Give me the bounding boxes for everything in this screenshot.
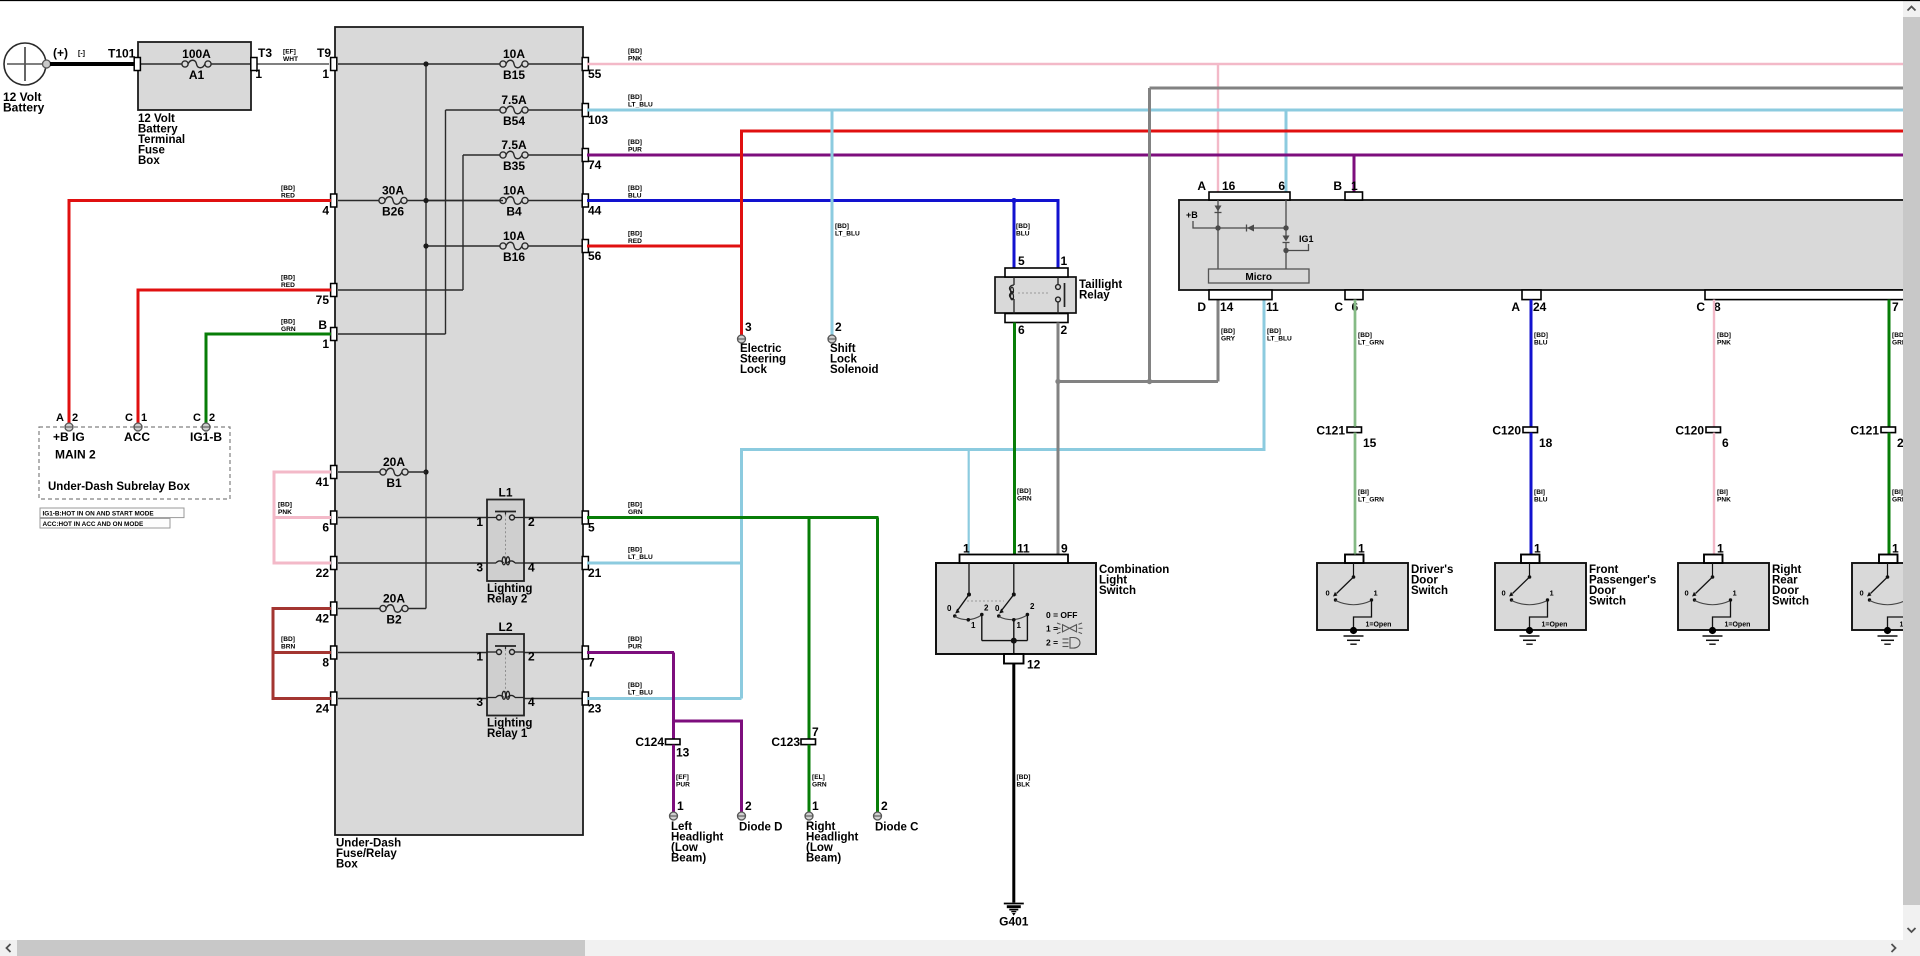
svg-text:0: 0 bbox=[995, 604, 1000, 613]
svg-text:16: 16 bbox=[1222, 179, 1236, 193]
wire LT_BLU drop to A6 bbox=[1285, 110, 1288, 192]
svg-text:20A: 20A bbox=[383, 592, 405, 606]
svg-text:C121: C121 bbox=[1850, 424, 1879, 438]
svg-text:1: 1 bbox=[476, 515, 483, 529]
svg-text:C123: C123 bbox=[771, 735, 800, 749]
svg-text:BLU: BLU bbox=[628, 192, 642, 199]
svg-text:55: 55 bbox=[588, 67, 602, 81]
svg-text:BLU: BLU bbox=[1534, 496, 1548, 503]
svg-text:56: 56 bbox=[588, 249, 602, 263]
svg-text:6: 6 bbox=[322, 521, 329, 535]
svg-text:[EF]: [EF] bbox=[283, 49, 296, 56]
wire [BD] LT_BLU to shift lock bbox=[831, 110, 834, 335]
internal bus wires bbox=[425, 64, 427, 609]
svg-text:2: 2 bbox=[984, 604, 989, 613]
svg-text:1: 1 bbox=[1374, 589, 1378, 598]
svg-text:T3: T3 bbox=[258, 46, 272, 60]
svg-text:11: 11 bbox=[1266, 300, 1279, 314]
svg-text:RED: RED bbox=[628, 238, 642, 245]
wire [BD] GRN pin5 to diode C bbox=[587, 516, 879, 519]
Under-Dash Subrelay Box bbox=[39, 427, 230, 499]
svg-text:[BD]: [BD] bbox=[1717, 332, 1731, 339]
svg-text:[BD]: [BD] bbox=[1221, 328, 1235, 335]
svg-text:[BD]: [BD] bbox=[281, 185, 295, 192]
svg-text:4: 4 bbox=[528, 695, 535, 709]
svg-text:LT_BLU: LT_BLU bbox=[628, 101, 653, 108]
comb switch pin 12 bbox=[1004, 654, 1024, 664]
svg-text:6: 6 bbox=[1018, 323, 1025, 337]
svg-text:23: 23 bbox=[588, 702, 602, 716]
svg-text:C: C bbox=[125, 412, 133, 424]
svg-text:C121: C121 bbox=[1316, 424, 1345, 438]
svg-text:20A: 20A bbox=[383, 455, 405, 469]
wire [BD] LT_BLU D11 down/left bbox=[1263, 300, 1266, 450]
wire [BD] BLU from module bbox=[1530, 300, 1533, 427]
relay L1 bbox=[487, 500, 524, 582]
svg-text:24: 24 bbox=[1533, 300, 1547, 314]
svg-text:103: 103 bbox=[588, 113, 608, 127]
svg-text:7.5A: 7.5A bbox=[501, 93, 527, 107]
svg-text:4: 4 bbox=[528, 561, 535, 575]
svg-text:1: 1 bbox=[322, 337, 329, 351]
svg-text:[BD]: [BD] bbox=[628, 94, 642, 101]
svg-text:2: 2 bbox=[72, 412, 78, 424]
svg-text:+B: +B bbox=[1186, 210, 1198, 220]
svg-text:Switch: Switch bbox=[1772, 596, 1809, 608]
svg-text:0: 0 bbox=[1860, 589, 1864, 598]
svg-text:[BD]: [BD] bbox=[628, 231, 642, 238]
svg-text:1: 1 bbox=[812, 799, 819, 813]
svg-text:1 =: 1 = bbox=[1046, 624, 1058, 634]
svg-text:PUR: PUR bbox=[676, 781, 690, 788]
svg-text:3: 3 bbox=[745, 320, 752, 334]
svg-text:[BD]: [BD] bbox=[628, 682, 642, 689]
svg-text:RED: RED bbox=[281, 282, 295, 289]
svg-text:[BD]: [BD] bbox=[628, 636, 642, 643]
wire BLU risers to taillight relay bbox=[1013, 201, 1016, 269]
svg-text:[BI]: [BI] bbox=[1534, 489, 1545, 496]
svg-text:Relay: Relay bbox=[1079, 290, 1110, 302]
svg-text:2: 2 bbox=[209, 412, 215, 424]
svg-text:PUR: PUR bbox=[628, 643, 642, 650]
svg-text:Diode D: Diode D bbox=[739, 822, 782, 834]
icon headlight bbox=[1070, 638, 1080, 649]
svg-text:B54: B54 bbox=[503, 114, 525, 128]
svg-text:6: 6 bbox=[1722, 436, 1729, 450]
svg-text:B: B bbox=[318, 318, 327, 332]
connector C123 bbox=[801, 739, 816, 745]
svg-text:IG1-B: IG1-B bbox=[190, 430, 222, 444]
fuse 20A B2 bbox=[338, 608, 383, 610]
svg-text:1: 1 bbox=[1351, 179, 1358, 193]
Combination Light Switch bbox=[936, 563, 1096, 654]
svg-text:[BI]: [BI] bbox=[1717, 489, 1728, 496]
wire LT_BLU riser to pins 21/23 bbox=[740, 448, 743, 699]
svg-text:A: A bbox=[1511, 300, 1520, 314]
terminal +B IG bbox=[65, 423, 73, 431]
svg-text:Relay 1: Relay 1 bbox=[487, 728, 528, 740]
svg-text:GRN: GRN bbox=[812, 781, 827, 788]
svg-text:[BD]: [BD] bbox=[1358, 332, 1372, 339]
svg-text:B35: B35 bbox=[503, 159, 525, 173]
connector C121 bbox=[1347, 427, 1362, 433]
svg-text:Battery: Battery bbox=[3, 101, 45, 115]
svg-text:42: 42 bbox=[316, 612, 330, 626]
svg-text:0: 0 bbox=[1685, 589, 1689, 598]
svg-text:0: 0 bbox=[1326, 589, 1330, 598]
svg-text:12: 12 bbox=[1027, 658, 1041, 672]
fuse 100A A1 bbox=[139, 63, 182, 65]
svg-text:[BD]: [BD] bbox=[278, 502, 292, 509]
svg-text:10A: 10A bbox=[503, 229, 525, 243]
svg-text:41: 41 bbox=[316, 475, 330, 489]
svg-text:3: 3 bbox=[476, 695, 483, 709]
svg-text:C: C bbox=[1696, 300, 1705, 314]
door switch left rear bbox=[1852, 563, 1920, 630]
svg-text:[BD]: [BD] bbox=[1534, 332, 1548, 339]
svg-text:Beam): Beam) bbox=[671, 853, 706, 865]
svg-text:1: 1 bbox=[1733, 589, 1737, 598]
svg-text:PNK: PNK bbox=[278, 509, 292, 516]
svg-text:+B IG: +B IG bbox=[53, 430, 85, 444]
svg-text:2: 2 bbox=[745, 799, 752, 813]
svg-text:3: 3 bbox=[476, 561, 483, 575]
svg-text:100A: 100A bbox=[182, 47, 211, 61]
svg-text:10A: 10A bbox=[503, 47, 525, 61]
svg-text:GRN: GRN bbox=[1017, 495, 1032, 502]
connector C bottom (6) bbox=[1345, 290, 1363, 300]
wire GRY relay2/D14/feed bbox=[1057, 323, 1060, 555]
svg-text:Box: Box bbox=[336, 859, 358, 871]
svg-text:(+): (+) bbox=[53, 46, 68, 60]
svg-text:PNK: PNK bbox=[1717, 339, 1731, 346]
wire [BD] RED pin4 to +B IG bbox=[69, 201, 331, 424]
wire PUR drop to B1 bbox=[1353, 155, 1356, 192]
svg-text:A: A bbox=[56, 412, 64, 424]
svg-text:1: 1 bbox=[963, 542, 970, 556]
svg-text:PNK: PNK bbox=[1717, 496, 1731, 503]
wire [BD] LT_GRN from module bbox=[1354, 300, 1357, 427]
wire [EL] GRN bbox=[808, 745, 811, 812]
comb switch contacts B bbox=[1013, 563, 1015, 595]
fuse 10A B4 bbox=[426, 200, 503, 202]
svg-text:Lock: Lock bbox=[740, 364, 767, 376]
ground G401 bbox=[1004, 903, 1024, 905]
svg-text:1: 1 bbox=[1534, 542, 1541, 556]
wire [BD] RED pin75 to ACC bbox=[138, 290, 331, 423]
svg-text:0 = OFF: 0 = OFF bbox=[1046, 610, 1077, 620]
svg-text:Switch: Switch bbox=[1411, 585, 1448, 597]
svg-text:G401: G401 bbox=[999, 915, 1029, 929]
svg-text:BLU: BLU bbox=[1534, 339, 1548, 346]
svg-text:7: 7 bbox=[1892, 300, 1899, 314]
svg-text:L1: L1 bbox=[498, 486, 512, 500]
door switch Front bbox=[1495, 563, 1586, 630]
svg-text:A: A bbox=[1197, 179, 1206, 193]
svg-text:WHT: WHT bbox=[283, 56, 298, 63]
svg-text:B1: B1 bbox=[386, 476, 402, 490]
svg-text:0: 0 bbox=[1502, 589, 1506, 598]
svg-text:[BD]: [BD] bbox=[1016, 223, 1030, 230]
12 Volt Battery Terminal Fuse Box bbox=[138, 42, 251, 110]
connector D bottom bbox=[1209, 290, 1272, 300]
svg-text:7.5A: 7.5A bbox=[501, 138, 527, 152]
svg-text:30A: 30A bbox=[382, 184, 404, 198]
svg-text:C: C bbox=[193, 412, 201, 424]
wire [BD] BLK to G401 bbox=[1012, 664, 1015, 903]
svg-text:1: 1 bbox=[1061, 254, 1068, 268]
svg-text:11: 11 bbox=[1017, 542, 1030, 556]
svg-text:2: 2 bbox=[528, 515, 535, 529]
svg-text:B: B bbox=[1333, 179, 1342, 193]
svg-text:74: 74 bbox=[588, 158, 602, 172]
svg-text:1: 1 bbox=[677, 799, 684, 813]
relay L2 bbox=[487, 634, 524, 716]
door switch Driver's bbox=[1317, 563, 1408, 630]
svg-text:18: 18 bbox=[1539, 436, 1553, 450]
connector A top bbox=[1209, 192, 1290, 200]
svg-text:B15: B15 bbox=[503, 68, 525, 82]
svg-text:0: 0 bbox=[947, 604, 952, 613]
svg-text:LT_GRN: LT_GRN bbox=[1358, 496, 1384, 503]
svg-text:[BD]: [BD] bbox=[281, 319, 295, 326]
wire [BD] RED pin56 bbox=[587, 245, 743, 248]
wire battery to T101 bbox=[50, 62, 134, 66]
svg-text:1: 1 bbox=[1358, 542, 1365, 556]
svg-text:7: 7 bbox=[812, 725, 819, 739]
micro block bbox=[1209, 269, 1310, 283]
svg-text:[BD]: [BD] bbox=[628, 185, 642, 192]
connector C124 bbox=[666, 739, 681, 745]
svg-text:[EL]: [EL] bbox=[812, 774, 825, 781]
svg-text:[BD]: [BD] bbox=[1017, 774, 1031, 781]
wire [BD] LT_BLU pin103 across bbox=[587, 109, 1903, 112]
fuse 30A B26 bbox=[338, 200, 382, 202]
wire [BD] PNK pins 41/6/22 bbox=[274, 472, 331, 563]
svg-text:IG1-B:HOT IN ON AND START MODE: IG1-B:HOT IN ON AND START MODE bbox=[43, 510, 155, 517]
svg-text:1=Open: 1=Open bbox=[1725, 622, 1751, 629]
svg-text:A1: A1 bbox=[189, 68, 205, 82]
svg-text:LT_GRN: LT_GRN bbox=[1358, 339, 1384, 346]
svg-text:LT_BLU: LT_BLU bbox=[628, 554, 653, 561]
svg-text:B26: B26 bbox=[382, 205, 404, 219]
svg-text:[BD]: [BD] bbox=[835, 223, 849, 230]
svg-text:1: 1 bbox=[1892, 542, 1899, 556]
svg-text:Switch: Switch bbox=[1589, 596, 1626, 608]
svg-text:2 =: 2 = bbox=[1046, 638, 1058, 648]
fuse 7.5A B54 bbox=[446, 109, 504, 111]
wire T3 to T9 [EF] WHT bbox=[257, 63, 329, 65]
fuse 20A B1 bbox=[338, 471, 383, 473]
wire [BI] PNK bbox=[1713, 433, 1715, 555]
vertical scrollbar bbox=[1903, 0, 1920, 940]
svg-text:21: 21 bbox=[588, 566, 602, 580]
svg-text:L2: L2 bbox=[498, 620, 512, 634]
svg-text:BLU: BLU bbox=[1016, 230, 1030, 237]
svg-text:LT_BLU: LT_BLU bbox=[835, 230, 860, 237]
svg-text:C124: C124 bbox=[635, 735, 664, 749]
svg-text:2: 2 bbox=[1061, 323, 1068, 337]
wire [BD] PUR pin7 to C124 bbox=[587, 651, 674, 654]
svg-text:T101: T101 bbox=[108, 47, 136, 61]
svg-text:[BD]: [BD] bbox=[628, 48, 642, 55]
svg-text:75: 75 bbox=[316, 293, 330, 307]
lt_grn core line bbox=[1354, 300, 1356, 427]
svg-text:22: 22 bbox=[316, 566, 330, 580]
horizontal scrollbar bbox=[0, 940, 1903, 956]
svg-text:10A: 10A bbox=[503, 184, 525, 198]
svg-text:C: C bbox=[1334, 300, 1343, 314]
svg-text:1=Open: 1=Open bbox=[1366, 622, 1392, 629]
comb switch coupler bbox=[967, 600, 1004, 602]
svg-text:13: 13 bbox=[676, 746, 690, 760]
svg-text:[BI]: [BI] bbox=[1892, 489, 1903, 496]
svg-text:Box: Box bbox=[138, 155, 160, 167]
svg-text:D: D bbox=[1197, 300, 1206, 314]
comb switch contacts A bbox=[968, 563, 970, 595]
top border line bbox=[0, 0, 1920, 2]
fuse 10A B15 bbox=[338, 63, 503, 65]
svg-text:1: 1 bbox=[255, 67, 262, 81]
svg-text:8: 8 bbox=[322, 656, 329, 670]
svg-text:14: 14 bbox=[1220, 300, 1234, 314]
svg-text:C120: C120 bbox=[1492, 424, 1521, 438]
svg-text:2: 2 bbox=[881, 799, 888, 813]
svg-text:1: 1 bbox=[141, 412, 147, 424]
svg-text:1: 1 bbox=[971, 621, 976, 630]
svg-text:RED: RED bbox=[281, 192, 295, 199]
comb switch output wires bbox=[981, 615, 983, 641]
svg-text:[BD]: [BD] bbox=[281, 636, 295, 643]
taillight relay bbox=[995, 277, 1076, 313]
svg-text:Diode C: Diode C bbox=[875, 822, 918, 834]
svg-text:PNK: PNK bbox=[628, 55, 642, 62]
fuse 7.5A B35 bbox=[463, 154, 503, 156]
svg-text:5: 5 bbox=[588, 521, 595, 535]
svg-text:Switch: Switch bbox=[1099, 585, 1136, 597]
svg-text:[BI]: [BI] bbox=[1358, 489, 1369, 496]
svg-text:MAIN 2: MAIN 2 bbox=[55, 448, 96, 462]
svg-text:LT_BLU: LT_BLU bbox=[1267, 335, 1292, 342]
connector B top bbox=[1345, 192, 1363, 200]
svg-text:[BD]: [BD] bbox=[628, 139, 642, 146]
svg-text:1: 1 bbox=[1550, 589, 1554, 598]
fuse 10A B16 bbox=[426, 245, 503, 247]
svg-text:IG1: IG1 bbox=[1299, 234, 1314, 244]
svg-text:BLK: BLK bbox=[1017, 781, 1031, 788]
svg-text:Under-Dash Subrelay Box: Under-Dash Subrelay Box bbox=[48, 481, 190, 493]
wire [BD] BRN pins 42/8/24 bbox=[273, 609, 331, 699]
svg-text:Beam): Beam) bbox=[806, 853, 841, 865]
svg-text:[BD]: [BD] bbox=[1267, 328, 1281, 335]
wire [BD] GRN from module bbox=[1888, 300, 1891, 427]
svg-text:GRY: GRY bbox=[1221, 335, 1236, 342]
svg-text:2: 2 bbox=[835, 320, 842, 334]
wire [BD] PNK pin55 across top bbox=[587, 63, 1903, 65]
svg-text:1: 1 bbox=[322, 67, 329, 81]
svg-text:6: 6 bbox=[1278, 179, 1285, 193]
svg-text:[BD]: [BD] bbox=[628, 547, 642, 554]
svg-text:Solenoid: Solenoid bbox=[830, 364, 879, 376]
wire PNK drop to A16 bbox=[1217, 64, 1219, 192]
terminal IG1-B bbox=[202, 423, 210, 431]
svg-text:C120: C120 bbox=[1675, 424, 1704, 438]
svg-text:Relay 2: Relay 2 bbox=[487, 594, 527, 606]
wire [BI] BLU bbox=[1530, 433, 1533, 555]
box left pins bbox=[331, 58, 337, 71]
svg-text:1=Open: 1=Open bbox=[1542, 622, 1568, 629]
wire [BI] LT_GRN bbox=[1354, 433, 1357, 555]
svg-text:PUR: PUR bbox=[628, 146, 642, 153]
connector C bottom (8, wide) bbox=[1705, 290, 1904, 300]
svg-text:GRN: GRN bbox=[281, 326, 296, 333]
12 Volt Battery bbox=[4, 43, 46, 85]
connector C120 bbox=[1523, 427, 1538, 433]
icon parking lamps bbox=[1063, 625, 1077, 632]
wire [BD] PUR pin74 across bbox=[587, 154, 1903, 157]
wire LT_BLU drop to comb switch pin1 bbox=[968, 450, 970, 555]
svg-text:[-]: [-] bbox=[78, 51, 85, 58]
svg-text:1: 1 bbox=[1017, 621, 1022, 630]
svg-text:[EF]: [EF] bbox=[676, 774, 689, 781]
svg-text:24: 24 bbox=[316, 702, 330, 716]
svg-text:7: 7 bbox=[588, 656, 595, 670]
wire [BD] BLU pin44 to taillight relay bbox=[587, 201, 1058, 269]
door switch Right bbox=[1678, 563, 1769, 630]
Under-Dash Fuse/Relay Box bbox=[335, 27, 583, 835]
wire [BI] GRN bbox=[1888, 433, 1891, 555]
svg-text:2: 2 bbox=[528, 650, 535, 664]
svg-text:T9: T9 bbox=[317, 46, 331, 60]
svg-text:BRN: BRN bbox=[281, 643, 296, 650]
svg-text:9: 9 bbox=[1061, 542, 1068, 556]
wire [BD] GRN relay6 to switch 11 bbox=[1013, 323, 1016, 555]
svg-text:B16: B16 bbox=[503, 250, 525, 264]
svg-text:[BD]: [BD] bbox=[281, 275, 295, 282]
svg-text:1: 1 bbox=[1717, 542, 1724, 556]
svg-text:44: 44 bbox=[588, 204, 602, 218]
svg-text:5: 5 bbox=[1018, 254, 1025, 268]
connector A bottom (24) bbox=[1522, 290, 1541, 300]
svg-text:LT_BLU: LT_BLU bbox=[628, 689, 653, 696]
svg-text:4: 4 bbox=[322, 204, 329, 218]
gauge control module box bbox=[1179, 200, 1906, 290]
svg-text:ACC:HOT IN ACC AND ON MODE: ACC:HOT IN ACC AND ON MODE bbox=[43, 521, 144, 528]
wire [BD] GRN pin B/1 to IG1-B bbox=[206, 334, 331, 423]
svg-text:B2: B2 bbox=[386, 613, 402, 627]
svg-text:[BD]: [BD] bbox=[628, 502, 642, 509]
wire RED riser / long feed bbox=[740, 131, 743, 335]
connector C120 bbox=[1706, 427, 1721, 433]
terminal ACC bbox=[134, 423, 142, 431]
note boxes bbox=[40, 508, 184, 518]
svg-text:B4: B4 bbox=[506, 205, 522, 219]
svg-text:ACC: ACC bbox=[124, 430, 150, 444]
svg-text:1: 1 bbox=[476, 650, 483, 664]
svg-text:2: 2 bbox=[1030, 602, 1035, 611]
svg-text:[BD]: [BD] bbox=[1017, 488, 1031, 495]
connector C121 bbox=[1881, 427, 1896, 433]
wire GRY long feed bbox=[1150, 87, 1904, 90]
wire [EF] PUR bbox=[672, 745, 675, 812]
svg-text:GRN: GRN bbox=[628, 509, 643, 516]
svg-text:Micro: Micro bbox=[1245, 272, 1272, 283]
svg-text:15: 15 bbox=[1363, 436, 1377, 450]
wire [BD] PNK from module bbox=[1713, 300, 1715, 427]
